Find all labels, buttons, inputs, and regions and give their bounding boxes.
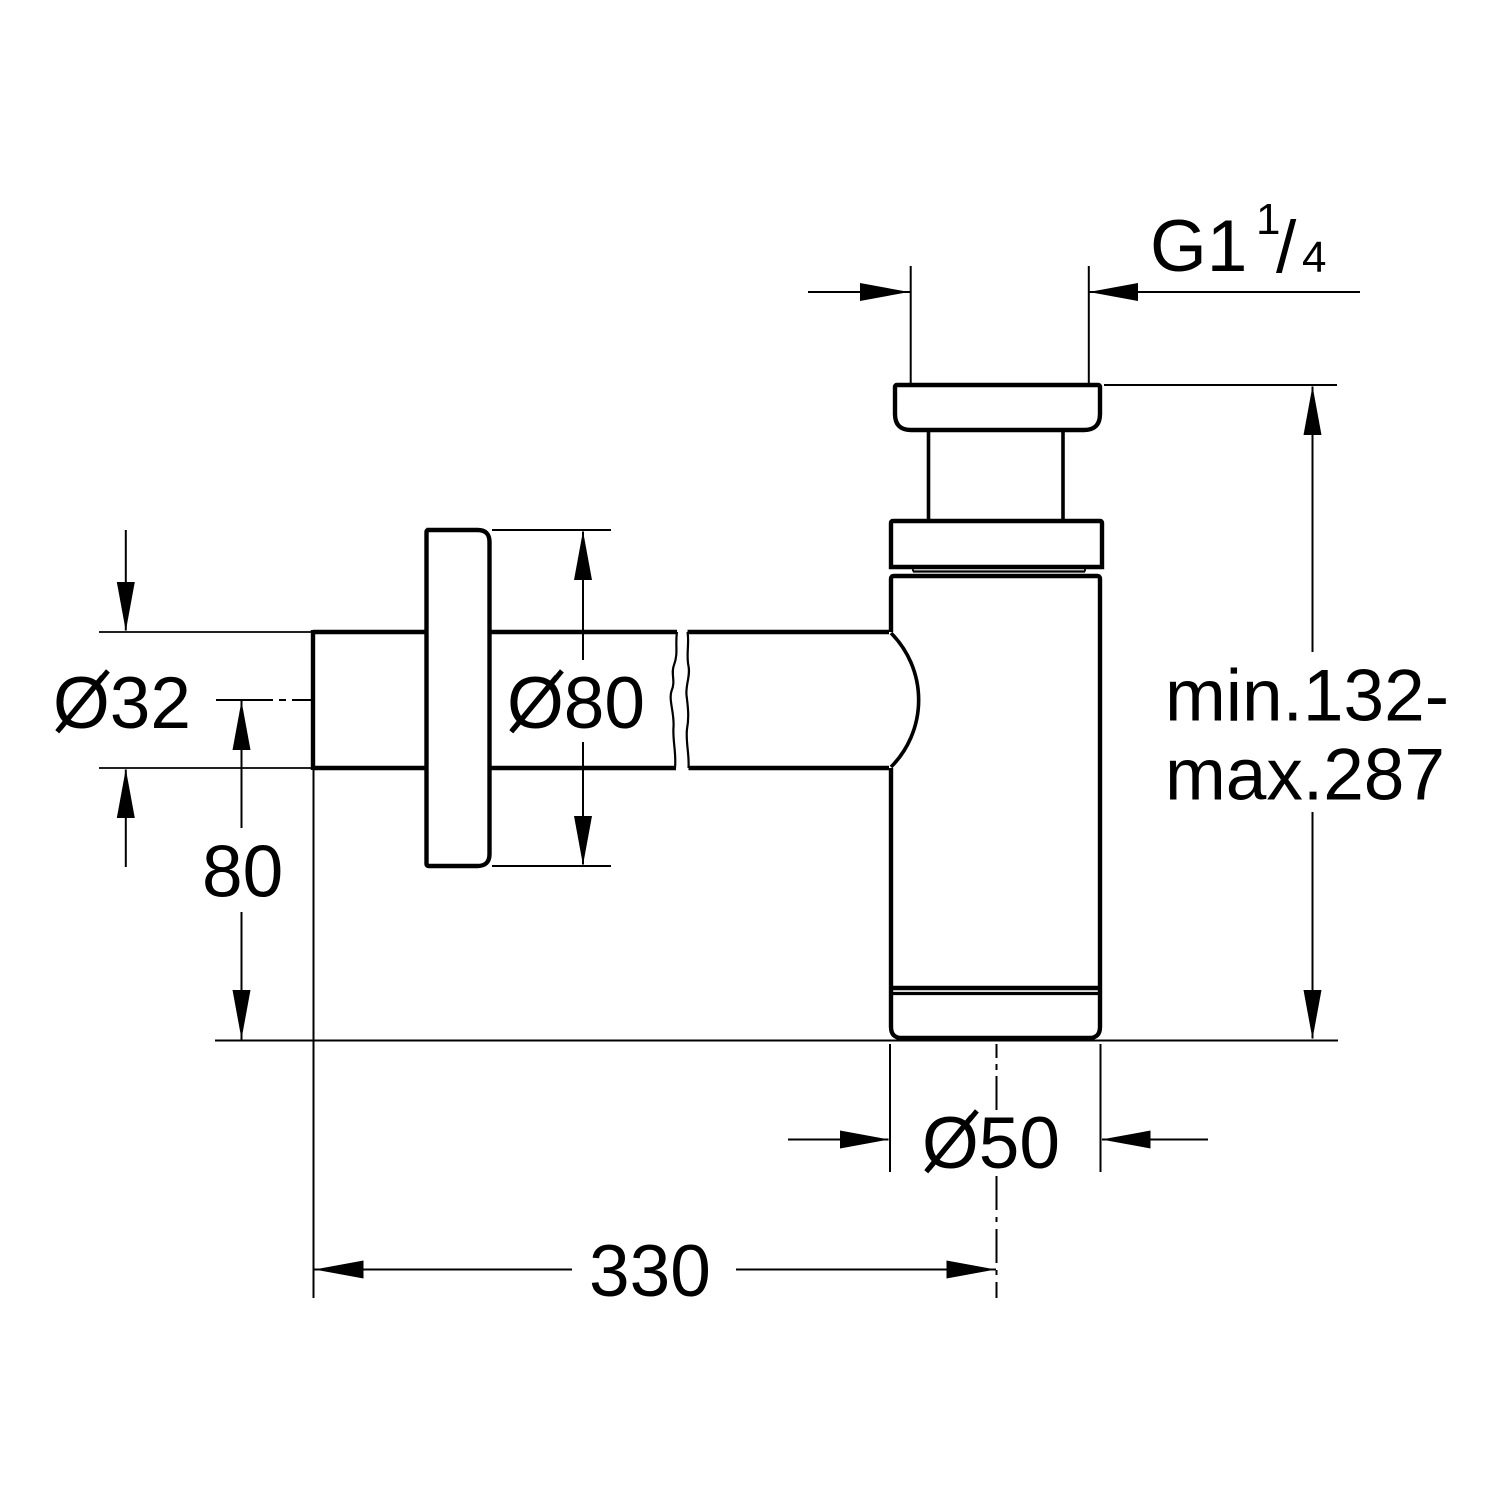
dimension 330 right arrowhead (right) [947, 1261, 996, 1279]
svg-text:G1: G1 [1150, 206, 1247, 287]
pipe left end cap [311, 630, 315, 770]
dimension Ø50 right arrow line [1102, 1139, 1208, 1141]
dimension G1 1/4 left extension line [910, 266, 912, 385]
dimension Ø32 upper arrow line [125, 530, 127, 631]
dimension 80 bottom arrowhead (down) [233, 990, 251, 1039]
baseline (floor reference line) [215, 1040, 1338, 1042]
svg-text:Ø32: Ø32 [53, 663, 191, 744]
dimension Ø50 left extension line [889, 1044, 891, 1172]
trap body outline [891, 576, 1100, 1038]
trap body cup (white fill) [889, 576, 1102, 1040]
dimension Ø80 bottom arrowhead (down) [574, 816, 592, 865]
dimension G1 1/4 right extension line [1088, 266, 1090, 385]
svg-text:max.287: max.287 [1165, 735, 1445, 816]
dimension 80 top arrowhead (up) [233, 701, 251, 750]
dimension Ø32 bottom extension line [99, 767, 311, 769]
dimension Ø80 line upper segment [582, 532, 584, 661]
svg-text:Ø80: Ø80 [507, 663, 645, 744]
pipe break squiggle left [671, 632, 677, 768]
dimension Ø32 lower arrow line [125, 770, 127, 868]
dimension Ø50 right arrowhead (left) [1102, 1131, 1151, 1149]
svg-text:80: 80 [202, 832, 283, 913]
threaded neck right edge [1061, 431, 1065, 520]
min/max bottom arrowhead [1304, 990, 1322, 1039]
body centerline lower (dash-dot) [996, 1176, 998, 1298]
dimension G1 1/4 left arrowhead [860, 283, 909, 301]
seam tick right [1084, 567, 1086, 572]
min/max dimension line lower segment [1312, 812, 1314, 1039]
dimension Ø80 top arrowhead (up) [574, 531, 592, 580]
dimension Ø32 top extension line [99, 631, 311, 633]
pipe end bulge inside body [891, 633, 919, 767]
compression nut [891, 521, 1102, 567]
dimension 330 left extension line [313, 770, 315, 1298]
dimension Ø80 top extension line [492, 529, 611, 531]
dimension 80 line upper segment [241, 701, 243, 828]
dimension 330 left arrowhead (left) [315, 1261, 364, 1279]
body bottom ring thick line [891, 986, 1100, 990]
svg-text:min.132-: min.132- [1165, 656, 1449, 737]
threaded neck left edge [927, 431, 931, 520]
bottom cap top thin line [891, 992, 1100, 995]
nut-body seam thin line [913, 570, 1085, 572]
dimension 330 line right segment [736, 1269, 996, 1271]
dimension Ø32 lower arrowhead (up) [117, 769, 135, 818]
dimension Ø32 upper arrowhead (down) [117, 582, 135, 631]
wall flange (escutcheon) on pipe [427, 530, 490, 866]
svg-text:4: 4 [1302, 233, 1326, 282]
pipe break squiggle right [686, 632, 689, 768]
svg-text:330: 330 [589, 1231, 711, 1312]
body centerline upper (dash-dot) [996, 1044, 998, 1110]
dimension G1 1/4 right arrow line [1090, 291, 1361, 293]
min/max dimension line upper segment [1312, 387, 1314, 653]
dimension 330 line left segment [314, 1269, 572, 1271]
dimension G1 1/4 left arrow line [808, 291, 910, 293]
min/max top arrowhead [1304, 386, 1322, 435]
min/max height top extension line [1104, 384, 1337, 386]
top inlet flange [895, 385, 1100, 430]
dimension Ø80 line lower segment [582, 742, 584, 865]
dimension Ø50 left arrow line [788, 1139, 889, 1141]
dimension G1 1/4 right arrowhead [1089, 283, 1138, 301]
dimension Ø50 right extension line [1100, 1044, 1102, 1172]
seam tick left [912, 567, 914, 572]
horizontal outlet pipe top edge [313, 630, 891, 634]
pipe centerline stub (dash-dot) [216, 699, 313, 701]
dimension 80 line lower segment [241, 912, 243, 1040]
svg-text:Ø50: Ø50 [922, 1103, 1060, 1184]
dimension Ø50 left arrowhead (right) [840, 1131, 889, 1149]
svg-text:/: / [1276, 207, 1297, 288]
horizontal outlet pipe bottom edge [313, 766, 891, 770]
dimension Ø80 bottom extension line [492, 865, 611, 867]
